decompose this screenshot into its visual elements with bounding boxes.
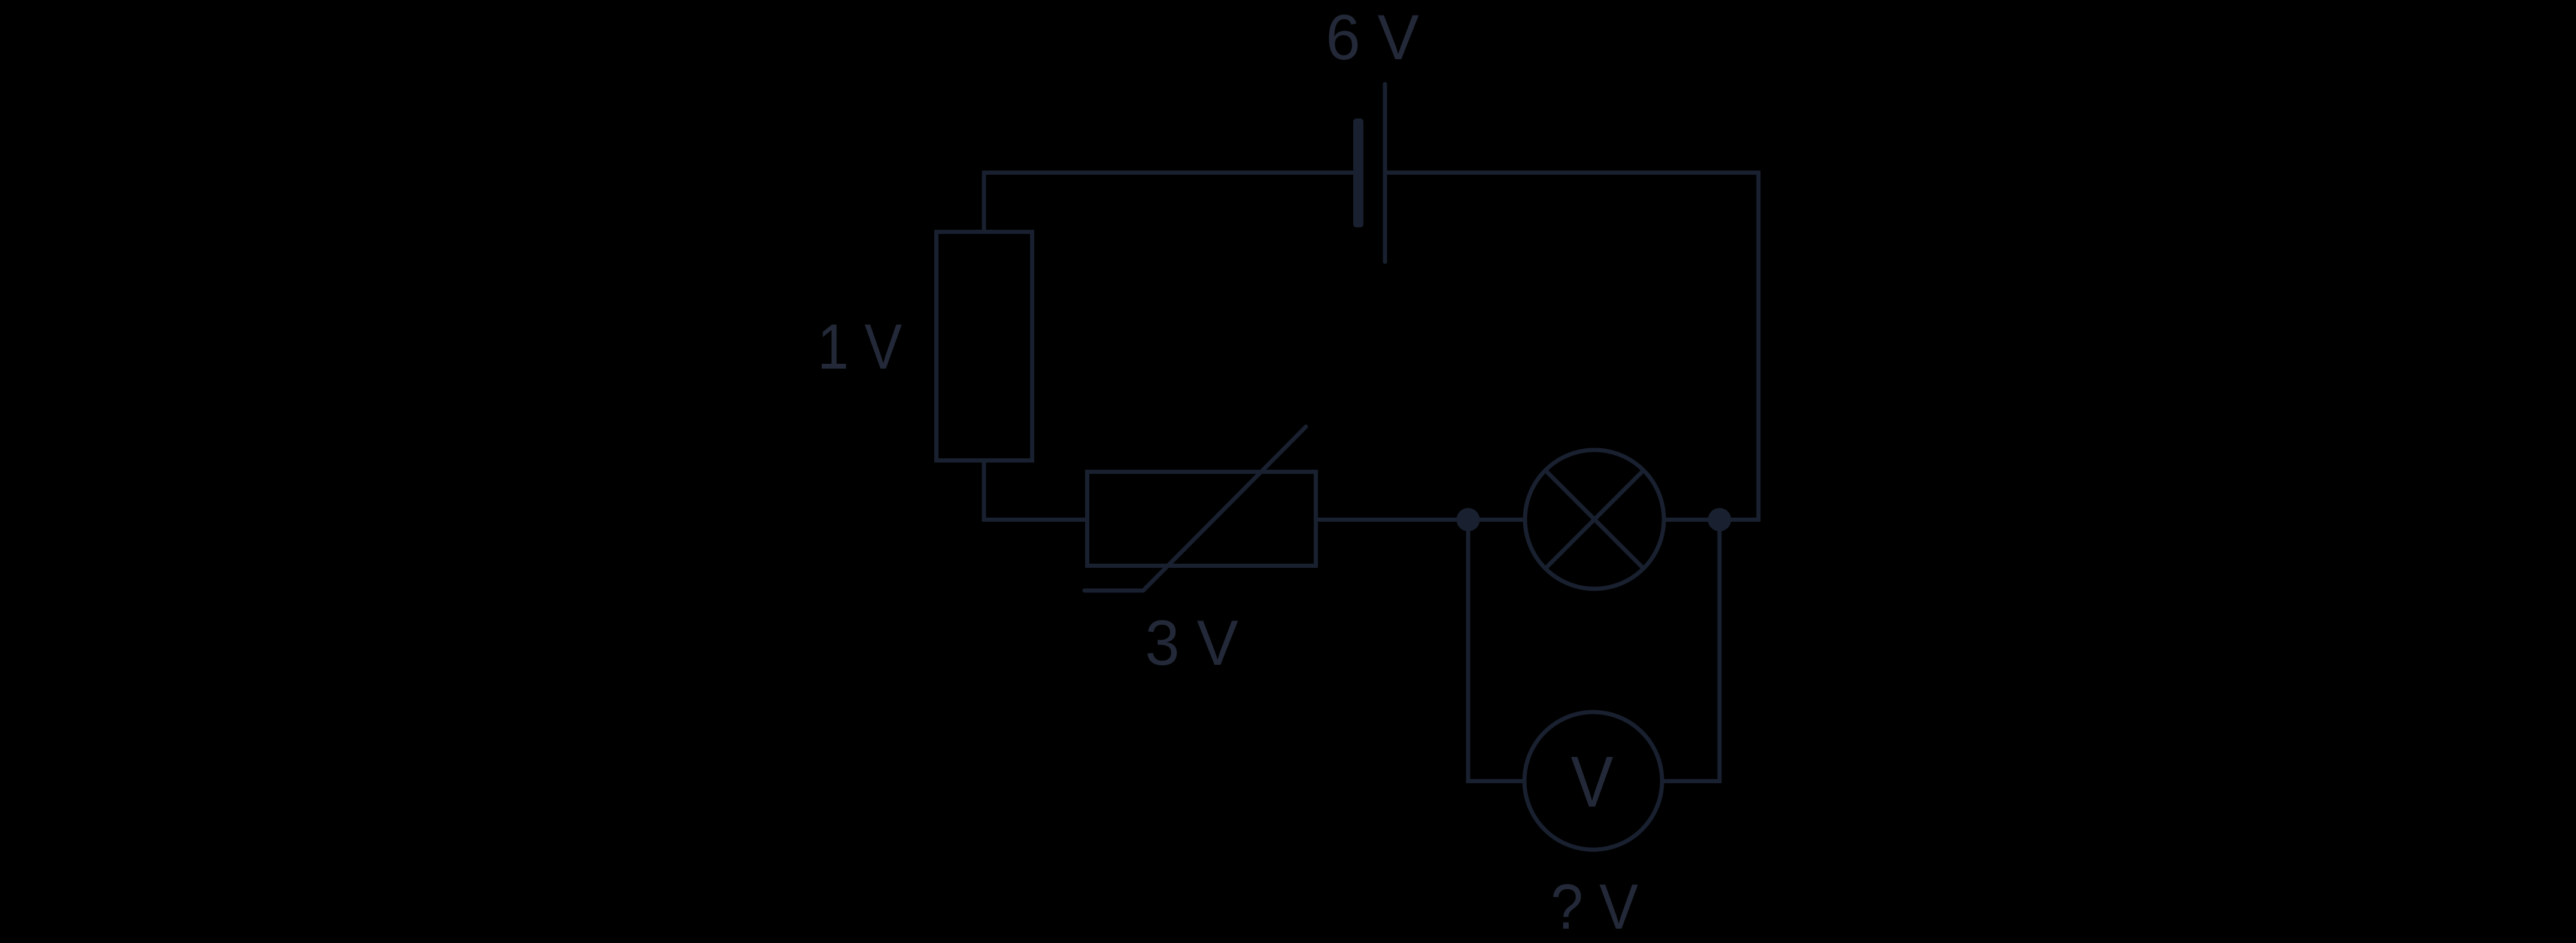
resistor R (1 V) body [937, 232, 1032, 461]
battery short thick plate (negative) [1353, 118, 1363, 227]
wire resistor bottom to thermistor [984, 460, 1087, 520]
wire voltmeter left branch [1468, 520, 1526, 781]
svg-text:1 V: 1 V [818, 311, 902, 382]
voltmeter V symbol [1570, 742, 1613, 823]
wire voltmeter right branch [1661, 520, 1720, 781]
node junction dot right [1708, 508, 1731, 531]
lamp circle [1525, 450, 1664, 589]
label 3 V (thermistor) [1145, 608, 1238, 679]
thermistor diagonal stroke [1085, 427, 1306, 591]
lamp X diagonal 1 [1545, 470, 1644, 568]
wire top-left from resistor top to battery [984, 173, 1353, 233]
battery long thin plate (positive) [1383, 84, 1387, 262]
svg-text:3 V: 3 V [1145, 608, 1238, 679]
label 6 V (battery) [1326, 2, 1419, 74]
wire left node to lamp [1468, 518, 1527, 522]
label ? V (voltmeter reading) [1551, 871, 1638, 942]
svg-text:V: V [1570, 742, 1613, 823]
thermistor body [1087, 472, 1316, 566]
label 1 V (resistor) [818, 311, 902, 382]
svg-text:? V: ? V [1551, 871, 1638, 942]
svg-text:6 V: 6 V [1326, 2, 1419, 74]
wire top-right from battery to right node [1387, 173, 1758, 520]
voltmeter circle [1524, 712, 1662, 850]
lamp X diagonal 2 [1545, 470, 1644, 568]
wire lamp to right node [1662, 518, 1720, 522]
node junction dot left [1457, 508, 1480, 531]
wire thermistor to left node [1316, 518, 1468, 522]
